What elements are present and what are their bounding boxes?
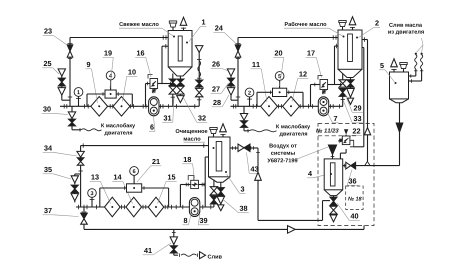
riser to tank3 bbox=[205, 157, 208, 207]
hose to engine oil tank right bbox=[249, 130, 277, 132]
label 39 bbox=[198, 214, 209, 225]
label 17 bbox=[306, 50, 322, 77]
label 12 bbox=[292, 71, 308, 101]
valve right branch bbox=[228, 78, 235, 86]
drain chain B tank2 bbox=[347, 78, 354, 105]
gauge circle 5 bbox=[275, 72, 284, 89]
drain arrow bbox=[200, 252, 206, 259]
text fresh oil bbox=[119, 22, 173, 36]
label 15 bbox=[158, 174, 177, 203]
label 28 bbox=[212, 95, 229, 107]
filter 13 bbox=[105, 197, 121, 217]
pipe bottom-left riser bbox=[80, 146, 82, 207]
hose to engine oil tank left bbox=[81, 129, 102, 131]
drain funnel right branch bbox=[227, 86, 234, 98]
indicator 4 body bbox=[105, 90, 116, 98]
drain chain B tank1 bbox=[177, 76, 184, 103]
U loop right leg bbox=[323, 201, 331, 221]
valve 23 bbox=[67, 43, 73, 57]
coil hose column bbox=[197, 60, 201, 79]
label 22 bbox=[350, 128, 362, 137]
vent 35 funnel bbox=[71, 174, 78, 184]
main line left system bbox=[60, 104, 199, 108]
text working oil bbox=[284, 22, 343, 36]
vent funnel right branch bbox=[227, 69, 234, 78]
marker triangle 22 bbox=[344, 129, 348, 136]
vent branch 35 pipe bbox=[75, 171, 83, 174]
relief valve 16 branch bbox=[146, 82, 151, 107]
drain valve right system bbox=[240, 106, 249, 132]
drain chain A tank1 bbox=[169, 74, 176, 107]
label 25 bbox=[42, 61, 59, 74]
vent tank 3 bbox=[220, 124, 227, 137]
drain valve 30 bbox=[68, 106, 81, 131]
label 1 bbox=[189, 19, 207, 41]
relief valve 18 bbox=[188, 176, 198, 189]
label 16 bbox=[135, 50, 151, 77]
label 34 bbox=[43, 145, 77, 156]
filter 10 bbox=[113, 97, 130, 117]
air funnel above tank4 bbox=[328, 145, 336, 159]
valve 43 bbox=[238, 144, 250, 151]
drain branch 41 bbox=[170, 229, 178, 255]
valve 34 bbox=[77, 151, 84, 165]
flow arrow up left leg bbox=[255, 172, 262, 180]
relief valve 17 branch bbox=[311, 83, 321, 107]
dashed box inner bbox=[346, 186, 363, 209]
tank 4 drain bbox=[330, 196, 337, 222]
vent tank 1 bbox=[180, 17, 187, 30]
drain chain B tank3 bbox=[217, 182, 224, 211]
valve 36 bbox=[346, 162, 356, 169]
pump 8 bbox=[189, 198, 199, 217]
vent funnel top column bbox=[196, 46, 203, 54]
relief valve 17 bbox=[318, 76, 328, 94]
label 40 bbox=[337, 203, 360, 220]
label 8 bbox=[182, 214, 191, 225]
text k maslobaku right bbox=[276, 124, 310, 136]
label 30 bbox=[42, 106, 68, 114]
valve column upper bbox=[196, 80, 203, 87]
label 33 bbox=[344, 101, 363, 123]
hose drain bbox=[180, 254, 198, 257]
indicator 21 body bbox=[127, 184, 142, 192]
indicator 5 body bbox=[273, 88, 287, 96]
drain chain A tank2 bbox=[339, 74, 346, 107]
label 2 bbox=[359, 20, 381, 37]
pipe 16 to tank riser bbox=[158, 44, 173, 85]
tank 5 bbox=[390, 72, 409, 103]
label 35 bbox=[43, 167, 71, 179]
tank 5 drain bbox=[396, 103, 403, 166]
vent-drain branch 25 pipe bbox=[62, 97, 72, 100]
filter 15 bbox=[148, 197, 164, 217]
indicator loop 5 pipes bbox=[257, 91, 303, 107]
label 24 bbox=[214, 25, 237, 44]
leader hoses bbox=[417, 38, 424, 52]
label 23 bbox=[43, 28, 67, 45]
valve 37 bbox=[81, 207, 88, 229]
label 13 bbox=[90, 174, 111, 203]
text drain from engine bbox=[388, 23, 424, 35]
text sliv bbox=[208, 255, 222, 259]
label 9 bbox=[85, 62, 97, 103]
indicator loop 21 pipes bbox=[100, 186, 169, 207]
gauge 1 bbox=[74, 88, 83, 107]
hose coil 1 bbox=[409, 53, 418, 78]
column 26-27 pipe bbox=[197, 53, 201, 106]
label 5 tank bbox=[379, 63, 395, 82]
pipe tank3 to valve 43 bbox=[230, 146, 238, 150]
label 38 bbox=[223, 199, 249, 213]
label 26 bbox=[211, 61, 229, 71]
vent 25 top funnel bbox=[58, 69, 65, 78]
label 37 bbox=[43, 208, 79, 217]
tank 4 bbox=[324, 159, 343, 196]
drain chain A tank3 bbox=[210, 180, 217, 208]
tank 2 bbox=[338, 30, 362, 78]
label 27 bbox=[211, 83, 229, 93]
label 3 tank bbox=[227, 174, 246, 193]
gauge circle 4 bbox=[106, 71, 115, 90]
tank 1 bbox=[168, 31, 192, 77]
gauge 3 bbox=[88, 189, 97, 207]
valve 24 bbox=[235, 44, 241, 58]
label 7 bbox=[327, 112, 339, 123]
label 6 bbox=[149, 117, 155, 132]
vent tank 2 bbox=[349, 17, 356, 30]
pump 6 bbox=[149, 97, 159, 116]
valve 35 bbox=[71, 185, 78, 192]
drain 25 funnel bbox=[58, 86, 65, 98]
tank 3 bbox=[209, 137, 231, 182]
valve column lower bbox=[196, 88, 203, 96]
pipe tank2 outlet upper bbox=[362, 37, 368, 161]
breather cap tank 2 bbox=[339, 20, 346, 30]
indicator loop 4 pipes bbox=[87, 92, 132, 106]
breather cap tank 1 bbox=[169, 21, 176, 31]
main line right system bbox=[231, 104, 344, 108]
filter 11 bbox=[261, 97, 278, 117]
label no1123 bbox=[316, 128, 339, 132]
U loop bottom bbox=[258, 219, 323, 221]
label 43 bbox=[247, 153, 260, 174]
vent-drain branch pipe right bbox=[231, 97, 240, 100]
label 21 bbox=[137, 159, 161, 182]
dashed box outer bbox=[318, 124, 374, 226]
gauge 2 bbox=[245, 88, 254, 106]
filter 12 bbox=[283, 97, 300, 117]
breather cap tank 3 bbox=[210, 127, 217, 137]
label 31 bbox=[162, 96, 174, 122]
text cleaned oil bbox=[176, 129, 208, 142]
filter 14 bbox=[126, 197, 142, 217]
dashed partition bbox=[318, 135, 356, 137]
label 36 bbox=[347, 170, 358, 186]
pipe top-right supply bbox=[238, 35, 338, 39]
main line bottom system bbox=[76, 205, 214, 209]
pipe left riser bbox=[68, 38, 72, 107]
label 18 bbox=[182, 157, 194, 178]
pipe 43 to junction bbox=[249, 146, 258, 150]
relief valve 16 bbox=[148, 75, 158, 93]
valve 25 bbox=[58, 78, 65, 86]
text air from system bbox=[267, 144, 328, 163]
gauge circle 6 bbox=[130, 167, 139, 184]
text k maslobaku left bbox=[101, 123, 135, 135]
pipe 17 to tank riser bbox=[328, 44, 343, 87]
label 41 bbox=[143, 243, 171, 255]
long drain line bbox=[84, 226, 364, 230]
valve 36 pipe bbox=[343, 161, 400, 167]
flow arrow up riser bbox=[364, 128, 370, 135]
label 20 bbox=[273, 50, 284, 86]
relief valve 18 loop bbox=[180, 183, 205, 207]
label no18 bbox=[348, 197, 362, 201]
label 29 bbox=[346, 95, 363, 112]
hose coil 2 bbox=[409, 53, 424, 83]
pipe bottom top line bbox=[81, 143, 209, 147]
label 19 bbox=[103, 50, 114, 88]
pump 7 bbox=[318, 97, 328, 116]
drain 35 funnel bbox=[71, 193, 78, 203]
flow arrow right bbox=[288, 226, 296, 234]
valve 22 bbox=[339, 136, 354, 147]
U loop left leg bbox=[256, 148, 260, 220]
label 32 bbox=[183, 96, 208, 122]
label 14 bbox=[112, 174, 132, 203]
pipe 22 to tank4 bbox=[340, 149, 346, 159]
label 10 bbox=[123, 69, 138, 101]
breather cap tank 5 bbox=[400, 62, 407, 72]
pipe right riser bbox=[236, 38, 240, 107]
label 4 tank bbox=[307, 171, 329, 178]
filter 9 bbox=[91, 97, 108, 117]
pipe tank2 outlet lower bbox=[354, 48, 364, 147]
vent tank 5 bbox=[391, 59, 398, 72]
pipe top-left supply bbox=[70, 35, 168, 39]
label 11 bbox=[251, 62, 267, 102]
